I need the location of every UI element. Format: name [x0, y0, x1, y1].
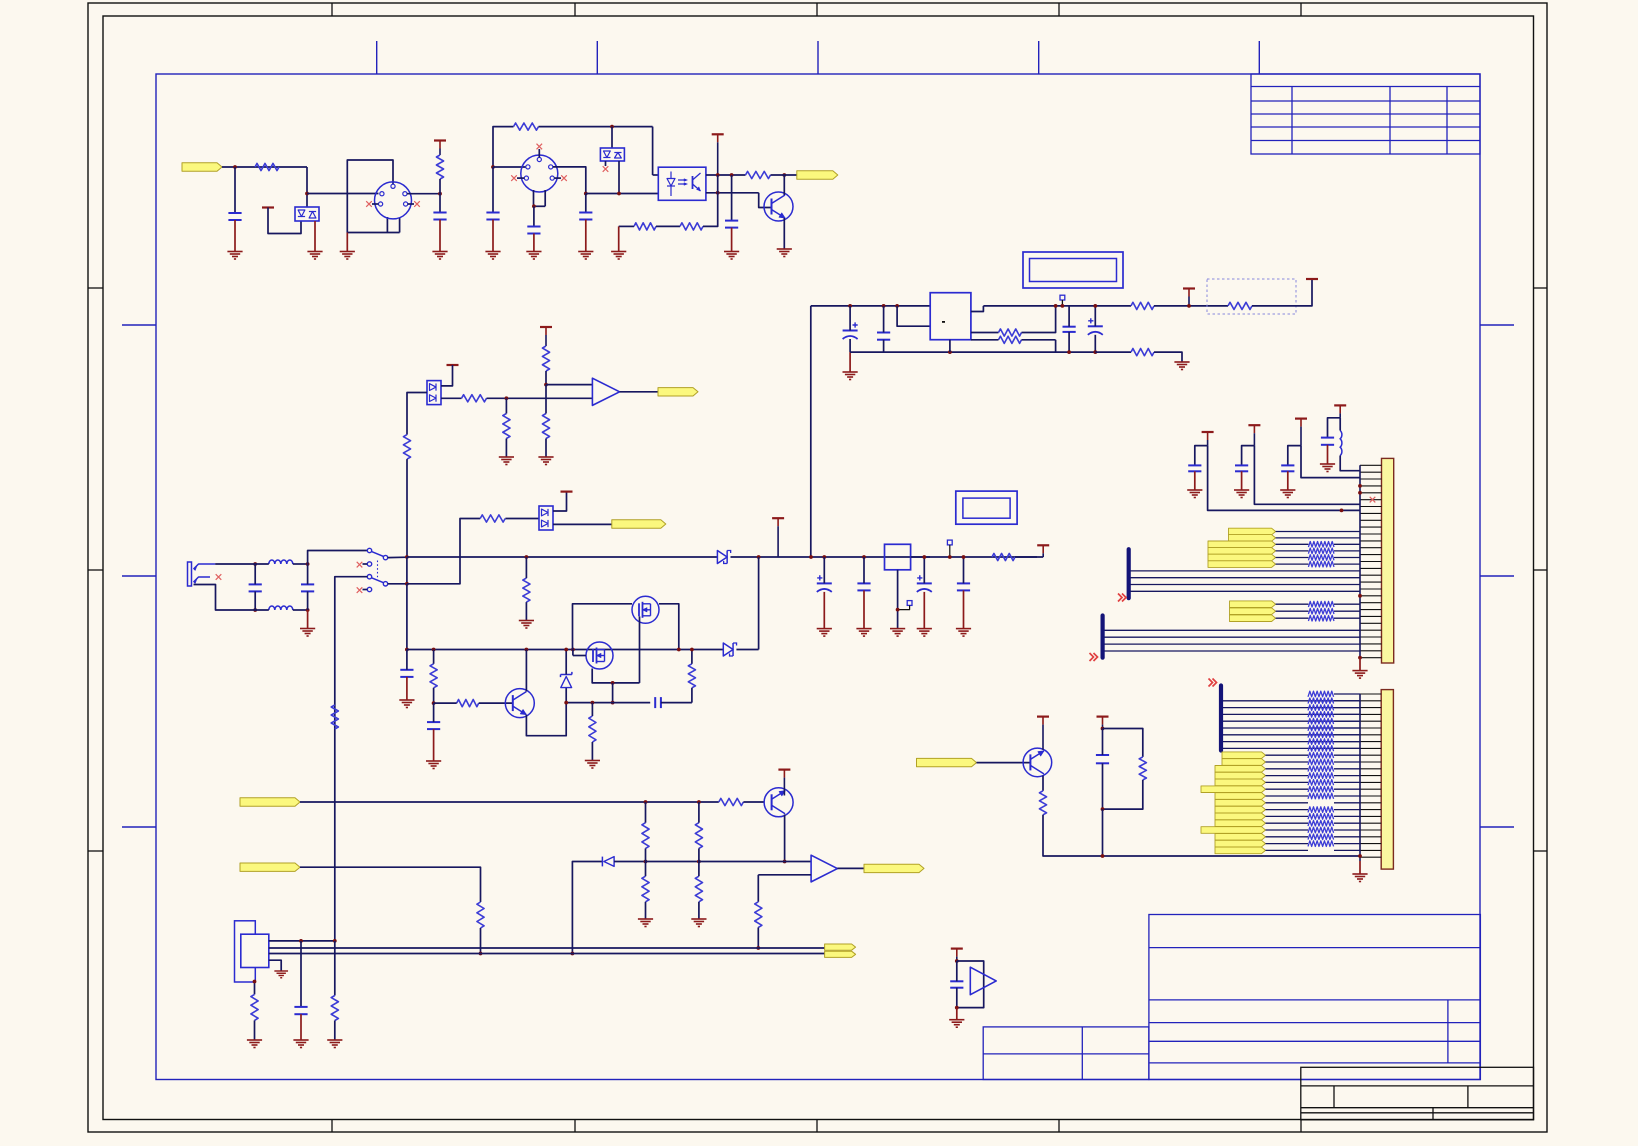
wire: [553, 167, 586, 194]
resistor R29: [251, 994, 258, 1020]
resistor R17: [589, 716, 596, 742]
ground: [227, 252, 242, 260]
resistor R30: [331, 996, 338, 1021]
node I: [716, 173, 720, 177]
node BN: [955, 959, 959, 963]
node AO: [564, 701, 568, 705]
wire: [1022, 339, 1056, 341]
wire: [783, 175, 785, 195]
net labels CN2: [1222, 752, 1266, 759]
wire lower return: [1095, 351, 1131, 353]
connector CN1 pin stubs: [1360, 465, 1382, 657]
resistor R12: [331, 705, 338, 729]
power VCC8: [1037, 544, 1049, 546]
capacitor C9: [249, 583, 262, 585]
MOSFET Q3: [586, 642, 613, 669]
node AE: [405, 582, 409, 586]
capacitor C10: [301, 583, 314, 585]
LCD block LCD1: [1023, 252, 1123, 288]
wire: [307, 610, 309, 629]
power VCC10: [1248, 424, 1260, 426]
audio jack J3: [188, 562, 192, 586]
wire: [849, 352, 851, 372]
node S: [1067, 350, 1071, 354]
wire S2 throw to bus: [335, 577, 368, 941]
wire: [308, 551, 368, 565]
wire: [706, 192, 759, 194]
wire: [388, 556, 407, 558]
wires RN3-RN4 to bus: [1334, 693, 1360, 695]
wire: [614, 861, 645, 863]
wire: [717, 175, 719, 193]
regulator U2: [930, 293, 971, 340]
wire: [234, 167, 236, 213]
wires RN2 to bus: [1334, 603, 1360, 605]
resistor R10: [1228, 302, 1252, 309]
wire: [585, 220, 587, 252]
wire: [1252, 279, 1312, 306]
wire: [493, 166, 526, 168]
transistor Q6: [1023, 748, 1052, 777]
ground: [843, 372, 858, 380]
ground: [856, 629, 871, 637]
wire: [1327, 445, 1329, 464]
capacitor C17: [1235, 464, 1248, 466]
wires labels group2: [1276, 603, 1309, 605]
power VCC1: [262, 206, 274, 208]
resistor R1: [255, 163, 279, 170]
node AI: [525, 648, 529, 652]
node AM: [611, 681, 615, 685]
wires B3 to CN2: [1223, 700, 1360, 702]
wire: [234, 220, 236, 252]
resistor R21 loop: [1103, 729, 1143, 757]
ground: [956, 629, 971, 637]
ground: [917, 629, 932, 637]
port P4: [612, 520, 666, 528]
resistor network RN3: [1308, 691, 1334, 697]
wire: [300, 867, 481, 902]
ground: [817, 629, 832, 637]
op-amp U4: [811, 855, 837, 882]
capacitor C18: [1281, 464, 1294, 466]
node AW: [962, 555, 966, 559]
wire: [1195, 446, 1208, 466]
wire: [407, 519, 480, 584]
node BO: [955, 1006, 959, 1010]
wire: [586, 193, 659, 195]
wire: [731, 228, 733, 252]
capacitor C16: [1188, 464, 1201, 466]
ground: [247, 1040, 262, 1048]
node AQ: [690, 648, 694, 652]
wire: [441, 397, 462, 399]
node BE: [783, 860, 787, 864]
ground: [485, 252, 500, 260]
ground: [578, 252, 593, 260]
power VCC6: [772, 517, 784, 519]
frame ticks right: [1480, 324, 1514, 326]
power VCC2: [434, 139, 446, 141]
power VCC12: [1334, 404, 1346, 406]
wire row 802: [300, 801, 719, 803]
connector CN2 header bar: [1381, 690, 1393, 870]
resistor network RN2: [1308, 601, 1334, 607]
wire: [492, 167, 494, 213]
node P: [1054, 304, 1058, 308]
ground: [327, 1040, 342, 1048]
wire: [810, 306, 812, 557]
node BH: [644, 860, 648, 864]
connector J1: [375, 182, 412, 219]
wire: [956, 1008, 958, 1020]
node A: [233, 165, 237, 169]
power VCC17: [447, 364, 459, 366]
wire: [971, 332, 999, 334]
wire: [553, 523, 612, 525]
ground: [307, 252, 322, 260]
ground: [432, 252, 447, 260]
bus entry chevron B1: [1118, 594, 1126, 602]
wires B1 to CN1: [1131, 570, 1361, 572]
wire: [897, 306, 930, 326]
wire: [783, 218, 785, 249]
node BQ: [544, 383, 548, 387]
jack sleeve wire: [194, 585, 249, 611]
wires labels CN2: [1266, 754, 1309, 756]
ground: [499, 457, 514, 465]
node N: [882, 304, 886, 308]
inductor L3: [1340, 431, 1342, 456]
wire: [757, 875, 759, 902]
wire: [254, 1020, 256, 1040]
bus entry chevron B2: [1090, 653, 1098, 661]
node BI: [697, 860, 701, 864]
node BD: [697, 800, 701, 804]
bus line upper: [269, 947, 825, 949]
bus entry bar B2: [1100, 616, 1104, 658]
net labels group1: [1229, 528, 1276, 535]
node AX: [1340, 509, 1344, 513]
wire: [1154, 305, 1228, 307]
ground: [1320, 464, 1335, 472]
wire: [911, 556, 1037, 558]
wire: [346, 233, 348, 252]
ports P9: [825, 944, 856, 950]
wire: [731, 175, 733, 221]
no-connect pin J1.4: [372, 203, 379, 205]
wire: [388, 583, 407, 585]
node M: [848, 304, 852, 308]
ground: [638, 919, 653, 927]
wire: [619, 225, 634, 227]
wire: [618, 161, 620, 194]
capacitor C15: [957, 582, 970, 584]
wire right riser: [758, 557, 760, 650]
node AD: [809, 555, 813, 559]
wire: [703, 193, 718, 227]
wire: [441, 365, 453, 386]
wire: [1015, 556, 1043, 558]
node AK: [571, 648, 575, 652]
node BG: [571, 952, 575, 956]
node bus dots CN1: [1358, 484, 1362, 488]
wires labels group1 to bus: [1276, 531, 1360, 533]
resistor R35: [542, 414, 549, 439]
wire: [439, 179, 441, 213]
ground: [538, 457, 553, 465]
no-connect J2 lower-right: [554, 177, 561, 179]
ground: [1352, 671, 1367, 679]
resistor R15: [430, 664, 437, 688]
wire: [949, 340, 951, 352]
port P1: [182, 163, 222, 171]
no-connect J2 lower-left: [517, 177, 524, 179]
capacitor C6: [725, 220, 738, 222]
wire: [505, 518, 539, 520]
wire output: [837, 867, 864, 869]
node H: [617, 192, 621, 196]
dotted option box: [1207, 279, 1296, 314]
wire: [652, 127, 654, 175]
wire: [406, 459, 408, 557]
ground: [691, 919, 706, 927]
node AN: [611, 701, 615, 705]
electrolytic CE2: [1088, 325, 1103, 327]
wire: [307, 193, 379, 195]
wire: [406, 584, 408, 650]
wire: [656, 225, 680, 227]
wire Q4 gate: [639, 616, 641, 683]
node AB: [525, 555, 529, 559]
wire: [539, 126, 653, 128]
power VCC5: [1306, 278, 1318, 280]
node AU: [922, 555, 926, 559]
no-connect pin J1.5: [408, 203, 414, 205]
wire col1: [1208, 446, 1360, 511]
wire: [1194, 471, 1196, 490]
wire: [731, 556, 811, 558]
resistor R28: [755, 902, 762, 928]
wire: [407, 193, 440, 195]
capacitor C14: [857, 582, 870, 584]
MOSFET Q4: [632, 596, 659, 623]
connector J2: [521, 155, 558, 192]
node BK: [299, 939, 303, 943]
wire: [525, 650, 527, 692]
resistor R2: [436, 155, 443, 179]
node T: [1093, 304, 1097, 308]
node AY: [1101, 727, 1105, 731]
wire Q4 left lead: [573, 604, 633, 650]
wire: [1154, 352, 1182, 362]
wire: [300, 1014, 302, 1040]
resistor R13: [480, 515, 505, 522]
node AP: [591, 701, 595, 705]
wire: [1043, 815, 1360, 856]
wire: [1287, 471, 1289, 490]
node BP: [505, 396, 509, 400]
wire: [759, 193, 772, 208]
node AL: [677, 648, 681, 652]
wire: [254, 982, 256, 994]
connector J4 shell: [235, 921, 256, 982]
wire: [699, 861, 811, 863]
wire Q4 right lead: [659, 604, 679, 650]
wire: [439, 220, 441, 252]
resistor R14: [523, 578, 530, 602]
node J: [730, 173, 734, 177]
node AT: [896, 608, 900, 612]
node AV: [948, 555, 952, 559]
diode D7: [723, 643, 733, 656]
wire: [661, 702, 692, 704]
electrolytic CE1: [843, 330, 858, 332]
wire: [492, 220, 494, 252]
switch S2: [367, 575, 371, 579]
node B: [305, 192, 309, 196]
transistor Q2: [505, 689, 534, 718]
resistor R7: [999, 329, 1022, 336]
ground bus CN1: [1359, 465, 1361, 657]
port P5: [240, 798, 300, 806]
wire: [743, 801, 764, 803]
wire: [533, 206, 535, 226]
wire loop: [957, 961, 984, 1008]
wire Q3 gate: [592, 669, 612, 683]
node BJ: [756, 946, 760, 950]
regulator U2 gnd pin: [949, 339, 951, 341]
ground: [611, 252, 626, 260]
ground bus CN2: [1359, 694, 1361, 861]
wire: [487, 397, 593, 399]
diode D4: [717, 551, 727, 564]
node AG: [432, 648, 436, 652]
port P3: [658, 388, 698, 396]
op-amp U3: [592, 378, 619, 405]
wire: [553, 492, 567, 511]
border zone ticks left: [88, 287, 103, 289]
resistor R22: [719, 798, 744, 805]
wire node row: [566, 702, 650, 704]
electrolytic CE3: [817, 582, 832, 584]
wire: [1340, 456, 1360, 471]
power VCC13: [1037, 715, 1049, 717]
power VCC4: [1183, 287, 1195, 289]
node X: [306, 562, 310, 566]
switch S1: [367, 548, 371, 552]
wire: [1288, 446, 1301, 466]
node AC: [757, 555, 761, 559]
resistor R8: [999, 336, 1022, 343]
capacitor C5: [579, 212, 592, 214]
bus entry bar B3: [1219, 686, 1223, 751]
wire: [407, 393, 427, 435]
electrolytic CE4: [917, 582, 932, 584]
node AF: [405, 648, 409, 652]
node E: [610, 125, 614, 129]
no-connect jack ring: [216, 574, 222, 580]
wire: [736, 649, 758, 651]
capacitor C11: [400, 669, 413, 671]
node AS: [862, 555, 866, 559]
resistor R34: [542, 346, 549, 371]
wire: [646, 861, 699, 863]
wire supply rail: [811, 305, 930, 307]
wire top rail: [215, 563, 248, 565]
wire: [1022, 306, 1056, 333]
wire: [268, 208, 301, 234]
bus line lower: [269, 953, 825, 955]
wire: [971, 306, 984, 312]
resistor R23: [477, 902, 484, 928]
resistor R11: [1131, 349, 1154, 356]
wire: [300, 941, 302, 1007]
switch link: [377, 561, 379, 581]
resistor network RN1: [1308, 542, 1334, 548]
small table blue: [983, 1027, 1149, 1080]
wire gate node: [612, 683, 614, 703]
wire: [706, 174, 746, 176]
ground: [399, 700, 414, 708]
power VCC16: [951, 947, 963, 949]
bus entry bar B1: [1127, 549, 1131, 598]
ground: [519, 621, 534, 629]
node U: [1093, 350, 1097, 354]
capacitor C3: [527, 226, 540, 228]
resistor R16: [457, 700, 479, 707]
port P8: [864, 864, 924, 872]
capacitor C12: [427, 721, 440, 723]
regulator U5: [885, 544, 911, 570]
zener D6: [561, 672, 572, 677]
pin marker: [947, 540, 952, 545]
wire: [585, 194, 587, 213]
dual diode D5: [539, 506, 553, 530]
wire col3: [1301, 446, 1360, 478]
frame ticks left: [122, 324, 156, 326]
node Y: [253, 608, 257, 612]
ground: [526, 252, 541, 260]
wire: [480, 928, 482, 954]
node AZ: [1101, 807, 1105, 811]
node G: [584, 192, 588, 196]
resistor R24: [642, 823, 649, 849]
regulator U5 gnd pin: [897, 570, 899, 629]
node L: [716, 191, 720, 195]
resistor R4: [746, 171, 771, 178]
resistor R5: [634, 223, 656, 230]
node AR: [822, 555, 826, 559]
ground: [293, 1040, 308, 1048]
resistor R32: [462, 395, 487, 402]
wire: [222, 166, 307, 168]
node AH: [432, 701, 436, 705]
no-connect CN1 pin: [1370, 497, 1376, 503]
wire: [533, 234, 535, 252]
capacitor C8: [1063, 326, 1076, 328]
wire: [620, 391, 658, 393]
wire: [1328, 418, 1341, 438]
wire J4 pin1: [269, 940, 335, 942]
dual diode D3: [427, 381, 441, 405]
no-connect J2 top: [538, 149, 540, 157]
inductor L1: [269, 560, 293, 564]
connector J2 shell: [533, 190, 535, 206]
wires RN1 to bus: [1334, 543, 1360, 545]
node AJ: [564, 648, 568, 652]
wire: [1042, 776, 1044, 791]
